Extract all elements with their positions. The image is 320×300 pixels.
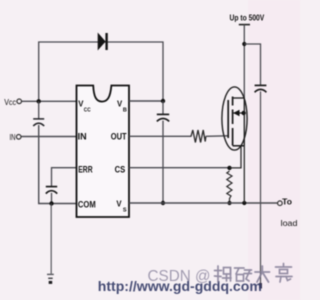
svg-text:CSDN @: CSDN @ bbox=[148, 268, 211, 285]
body stub with arrow bbox=[233, 112, 244, 114]
node source-VS junction bbox=[242, 201, 246, 205]
svg-text:To: To bbox=[282, 197, 292, 207]
IC U1 gate driver bbox=[77, 86, 130, 218]
svg-text:S: S bbox=[123, 207, 127, 213]
svg-text:V: V bbox=[117, 98, 123, 108]
watermark kanji 3 bbox=[255, 266, 270, 282]
watermark kanji 4 bbox=[276, 264, 293, 283]
svg-text:load: load bbox=[281, 218, 298, 228]
pink watermark band right bbox=[248, 0, 300, 300]
svg-text:COM: COM bbox=[78, 199, 96, 209]
ground bbox=[47, 274, 54, 282]
node Vcc junction bbox=[37, 99, 41, 103]
wire R2 bottom lead bbox=[229, 198, 231, 203]
node VB junction bbox=[161, 99, 165, 103]
tie vertical bbox=[243, 98, 245, 146]
drain stub bbox=[233, 97, 245, 99]
wire COM return run bbox=[39, 125, 77, 204]
terminal IN bbox=[16, 135, 21, 140]
svg-text:CS: CS bbox=[115, 164, 126, 174]
wire source lead bbox=[243, 146, 245, 203]
wire top bootstrap run bbox=[39, 42, 163, 101]
svg-text:CC: CC bbox=[84, 107, 91, 113]
node sense-VS junction bbox=[227, 201, 231, 205]
resistor R1 (gate) bbox=[191, 130, 206, 143]
source stub bbox=[233, 145, 245, 147]
transistor Q1 (power MOSFET) bbox=[222, 87, 247, 150]
watermark kanji 2 bbox=[235, 268, 252, 281]
svg-text:IN: IN bbox=[10, 133, 16, 142]
wire HV drop bbox=[243, 25, 245, 98]
capacitor C2 (ERR) bbox=[46, 187, 57, 194]
svg-text:ERR: ERR bbox=[78, 164, 93, 174]
node CS junction bbox=[227, 166, 231, 170]
svg-text:Vcc: Vcc bbox=[4, 98, 16, 107]
svg-text:IN: IN bbox=[78, 132, 87, 143]
svg-text:OUT: OUT bbox=[111, 132, 127, 143]
watermark kanji 1 bbox=[215, 266, 232, 282]
wire VB pin bbox=[129, 100, 163, 102]
wire ground drop bbox=[50, 204, 52, 274]
wire CS pin bbox=[129, 167, 230, 169]
svg-text:V: V bbox=[116, 198, 122, 208]
gate bar bbox=[227, 100, 229, 138]
resistor R2 (sense) bbox=[227, 171, 232, 199]
wire VS output run bbox=[129, 202, 278, 204]
wire bootstrap cap bottom lead bbox=[162, 121, 164, 203]
node VS bootstrap junction bbox=[161, 201, 165, 205]
capacitor C1 (Vcc decoupling) bbox=[33, 119, 44, 126]
wire HV to bypass cap bbox=[244, 44, 260, 85]
terminal To load bbox=[278, 201, 283, 206]
wire IN input bbox=[21, 136, 77, 138]
wire Vcc input bbox=[22, 100, 77, 102]
channel bar segments bbox=[232, 97, 234, 106]
node HV junction bbox=[242, 42, 246, 46]
line end mark bbox=[259, 283, 262, 289]
wire gate lead bbox=[206, 135, 228, 138]
terminal Vcc bbox=[17, 99, 22, 104]
wire Vcc cap top lead bbox=[38, 101, 40, 118]
wire C2 bottom lead bbox=[51, 193, 53, 204]
wire HV terminal bar bbox=[239, 24, 250, 26]
svg-text:Up to 500V: Up to 500V bbox=[230, 14, 265, 23]
svg-text:B: B bbox=[123, 107, 127, 113]
capacitor C3 (bootstrap) bbox=[157, 114, 169, 121]
node COM junction bbox=[49, 201, 53, 205]
diode D1 bbox=[98, 33, 107, 51]
wire bypass cap bottom lead bbox=[260, 91, 262, 286]
wire bootstrap cap top lead bbox=[162, 101, 164, 114]
capacitor C4 (bus bypass) bbox=[255, 85, 267, 92]
wire CS to source stub bbox=[230, 146, 242, 168]
wire OUT pin bbox=[129, 135, 192, 137]
node body-source tie bbox=[241, 111, 245, 115]
wire ERR run bbox=[52, 168, 77, 186]
